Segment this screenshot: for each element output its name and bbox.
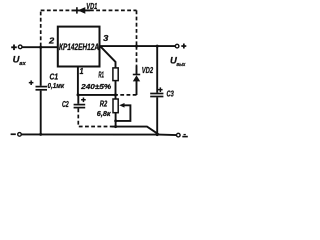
diode VD1	[76, 7, 85, 14]
resistor R2 (potentiometer)	[113, 99, 118, 113]
node wiper/R2 junction	[114, 119, 117, 122]
node input terminal	[11, 45, 22, 51]
wire wiper loop	[116, 105, 131, 121]
wire pin1	[77, 67, 79, 95]
diode VD2	[133, 74, 140, 82]
svg-text:240±5%: 240±5%	[80, 82, 111, 91]
node R1/R2/VD2 junction	[114, 93, 117, 96]
svg-text:0,1мк: 0,1мк	[48, 81, 66, 90]
svg-text:C3: C3	[167, 90, 175, 99]
wire R2 bottom to rail	[112, 127, 159, 135]
capacitor C1	[36, 87, 48, 90]
svg-text:1: 1	[80, 67, 84, 76]
wire dashed VD2 to adjust	[117, 94, 137, 96]
svg-text:R1: R1	[98, 70, 104, 79]
node minus-right terminal	[177, 133, 188, 137]
wire adjust rail	[78, 94, 116, 96]
node input/C1/dash junction	[39, 46, 42, 49]
svg-text:C2: C2	[62, 100, 69, 109]
svg-text:КР142ЕН12А: КР142ЕН12А	[59, 42, 99, 52]
wire input	[22, 46, 58, 48]
wire R1 bottom lead	[115, 81, 117, 95]
node C3/rail junction	[156, 133, 159, 136]
node pin1/C2 junction	[77, 93, 80, 96]
wire C1 branch	[40, 47, 42, 86]
svg-text:2: 2	[48, 36, 55, 45]
wire bottom rail	[22, 133, 177, 136]
node C1/rail junction	[39, 133, 42, 136]
wire C2 dashed bottom lead	[78, 108, 111, 126]
wire dashed top rail	[41, 9, 72, 11]
junction dots	[39, 45, 159, 137]
resistor R1	[113, 68, 118, 81]
node minus-left terminal	[11, 133, 22, 137]
node output/C3 junction	[156, 45, 159, 48]
svg-text:6,8к: 6,8к	[97, 109, 112, 118]
svg-text:вых: вых	[176, 62, 186, 68]
op-amp U1 : regulator IC box KR142EN12A	[58, 27, 100, 67]
wire C3 bottom lead	[156, 97, 158, 134]
node output terminal	[175, 44, 186, 49]
svg-text:R2: R2	[100, 99, 108, 108]
wire dashed left vertical	[40, 10, 42, 46]
wire dashed right vertical	[136, 10, 138, 46]
wire VD2 leads	[136, 66, 138, 75]
wire C2 top lead	[77, 95, 79, 104]
wire R2 bottom lead	[115, 113, 117, 127]
wire output	[100, 45, 176, 47]
capacitor C2	[74, 105, 86, 108]
wire C3 top lead	[156, 46, 158, 93]
svg-text:3: 3	[103, 34, 109, 43]
svg-text:VD2: VD2	[142, 66, 154, 75]
wire pin3 diagonal	[100, 46, 115, 68]
svg-text:вх: вх	[19, 61, 26, 67]
node output/VD2 junction	[135, 45, 138, 48]
wire R2 top lead	[115, 95, 117, 99]
svg-text:VD1: VD1	[86, 2, 97, 11]
capacitor C3	[150, 94, 163, 97]
node R2/dash junction	[114, 125, 117, 128]
